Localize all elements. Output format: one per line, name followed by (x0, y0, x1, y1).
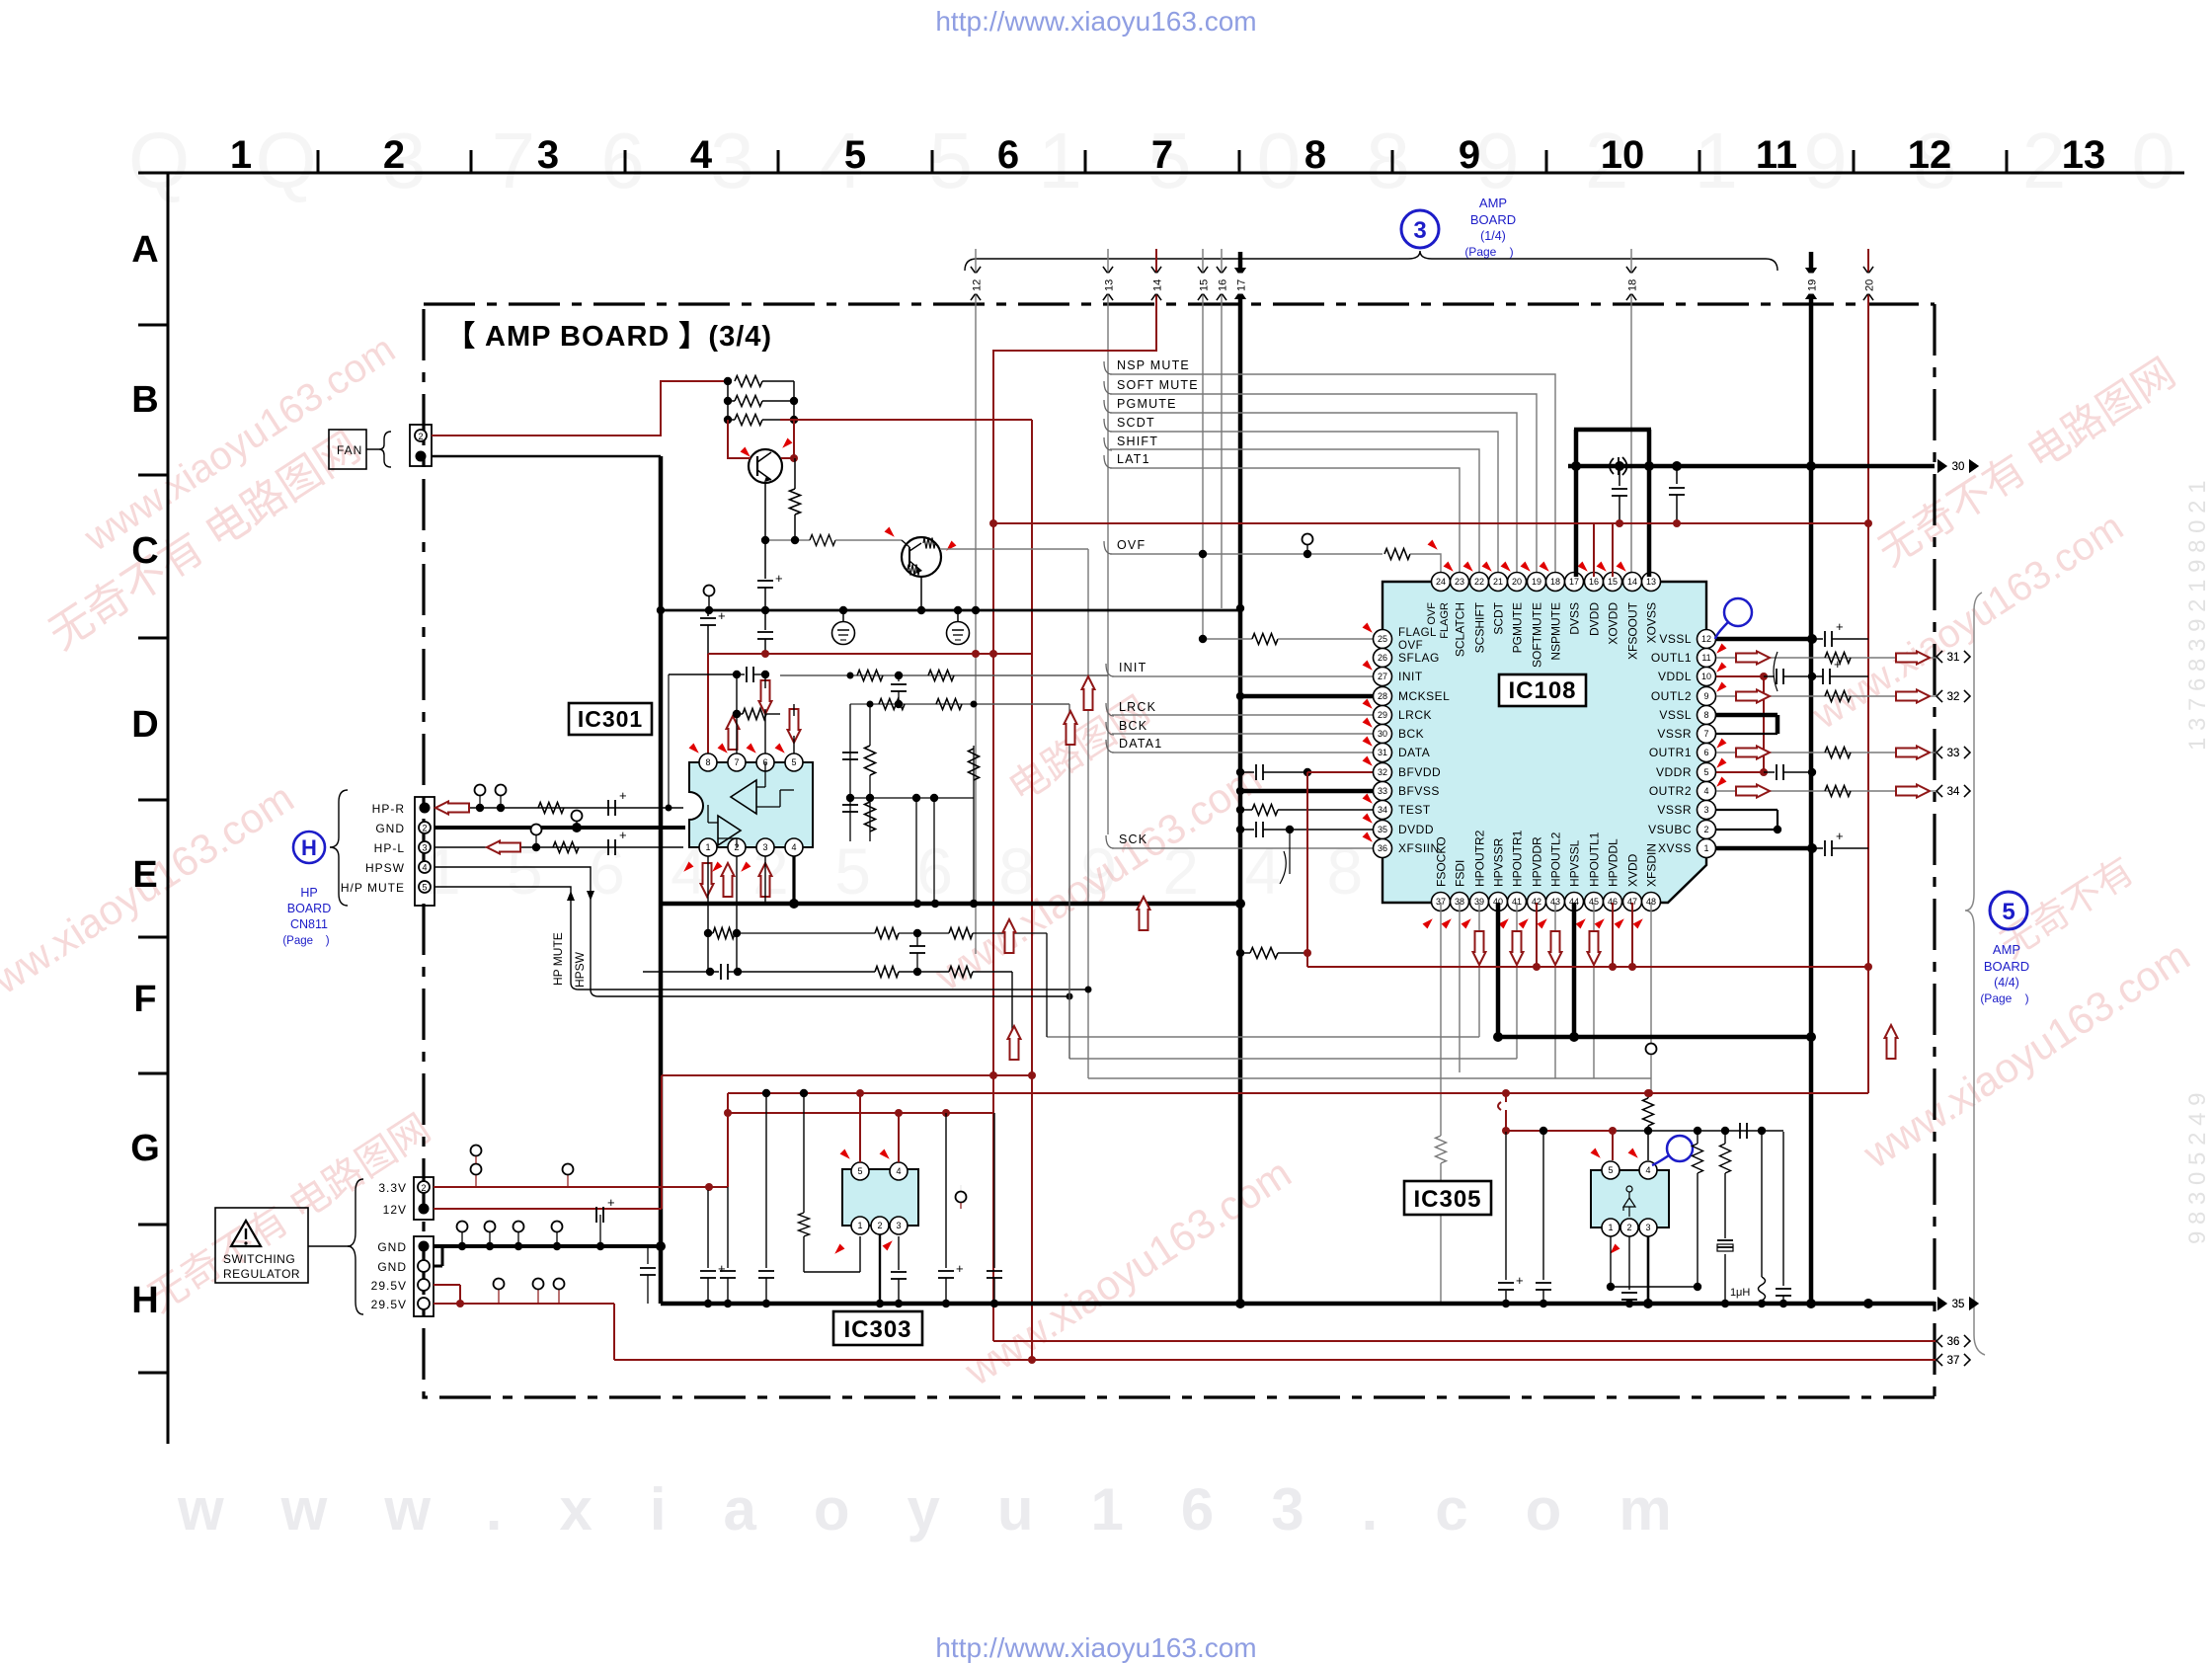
cap polar left (1505, 1132, 1507, 1280)
svg-text:CN811: CN811 (290, 917, 328, 931)
svg-text:4: 4 (690, 133, 713, 177)
page connector 16 glyph (1217, 267, 1226, 274)
arrow (1082, 676, 1095, 710)
page connector 14 top (1151, 267, 1161, 274)
svg-text:SWITCHING: SWITCHING (223, 1252, 295, 1266)
svg-text:FLAGR: FLAGR (1439, 602, 1451, 639)
svg-text:3.3V: 3.3V (378, 1181, 407, 1195)
signal PGMUTE (1104, 400, 1112, 413)
red ticks top pins (1444, 562, 1457, 575)
junction (656, 1241, 666, 1251)
wire DVDD cap (1236, 826, 1244, 833)
signal NSP MUTE (1104, 361, 1112, 374)
wire VSSR3 (1716, 809, 1777, 811)
svg-text:2: 2 (1703, 825, 1708, 834)
svg-text:XFSDIN: XFSDIN (1645, 843, 1659, 887)
wire thick row1050 (1498, 1035, 1811, 1040)
svg-text:(Page ): (Page ) (1980, 991, 2028, 1005)
svg-text:5: 5 (791, 757, 796, 767)
junctions red (761, 650, 769, 658)
resistor (538, 803, 564, 814)
tp2 (567, 1175, 569, 1187)
wire pin46 red (1612, 903, 1614, 967)
test point (576, 821, 578, 828)
wire (793, 381, 795, 420)
wire conn14 red (993, 249, 1156, 419)
svg-text:HPVDDR: HPVDDR (1531, 836, 1544, 887)
AMP BOARD dashed border (424, 304, 1935, 1397)
svg-text:3: 3 (896, 1221, 901, 1230)
svg-text:7: 7 (1703, 729, 1708, 739)
page connector 35 glyph (1937, 1297, 1947, 1310)
signal SCDT (1104, 419, 1112, 432)
wire pin38 (1459, 903, 1461, 1072)
SW REG brace (348, 1179, 363, 1314)
svg-text:DVDD: DVDD (1398, 823, 1434, 836)
svg-text:12V: 12V (383, 1203, 407, 1217)
svg-text:XVSS: XVSS (1658, 841, 1692, 855)
svg-text:HPVSSR: HPVSSR (1492, 837, 1506, 887)
wire thick gnd bus (659, 456, 664, 1304)
svg-text:D: D (131, 704, 158, 746)
FAN box (329, 430, 366, 469)
svg-text:HP-R: HP-R (372, 802, 405, 816)
svg-text:INIT: INIT (1119, 661, 1146, 674)
wire VSSR7 (1716, 733, 1777, 735)
page connector 19 top (1805, 268, 1817, 277)
svg-text:18: 18 (1627, 279, 1639, 291)
IC301 body (689, 762, 813, 847)
wire stubs (915, 798, 917, 904)
svg-text:16: 16 (1218, 279, 1229, 291)
wire GND thick (434, 1244, 661, 1248)
page link 3 bracket (965, 251, 1777, 271)
svg-text:VSUBC: VSUBC (1648, 823, 1692, 836)
svg-text:SOFT MUTE: SOFT MUTE (1117, 378, 1199, 392)
IC108 label (1499, 674, 1586, 706)
svg-text:32: 32 (1378, 767, 1387, 777)
page connector 14 glyph (1151, 267, 1161, 274)
svg-text:3: 3 (537, 133, 559, 177)
ground sym1 (842, 610, 844, 622)
svg-text:C: C (131, 530, 158, 572)
svg-text:5: 5 (857, 1166, 862, 1176)
svg-text:36: 36 (1947, 1336, 1960, 1348)
ruler left line (167, 173, 170, 1444)
page connector 35 right (1937, 1297, 1947, 1310)
svg-text:21: 21 (1493, 577, 1503, 587)
wire 29.5 down (613, 1304, 615, 1360)
wire 29.5V a (434, 1284, 460, 1286)
svg-text:+: + (956, 1261, 964, 1276)
wire conn20 red vertical (1867, 249, 1869, 1093)
page connector 13 glyph (1103, 267, 1113, 274)
wire pin7 up (736, 674, 738, 753)
page connector 37 right (1936, 1354, 1942, 1366)
page connector 15 top (1198, 267, 1208, 274)
wire GND thick (434, 826, 685, 830)
page connector 36 glyph (1936, 1335, 1942, 1347)
tick (885, 527, 898, 540)
svg-text:OUTR1: OUTR1 (1649, 746, 1692, 759)
HP circled H (293, 831, 325, 863)
tp 29.5 (498, 1290, 500, 1304)
red ticks bottom pins (1423, 916, 1436, 929)
wire row684 (780, 674, 1108, 676)
wire (727, 381, 729, 420)
svg-text:15: 15 (1199, 279, 1211, 291)
svg-text:GND: GND (377, 1240, 407, 1254)
svg-text:14: 14 (1627, 577, 1637, 587)
wire row808 (850, 797, 974, 799)
capacitor (607, 839, 609, 855)
svg-text:OVF: OVF (1426, 602, 1438, 625)
svg-text:HPSW: HPSW (573, 951, 587, 988)
svg-text:32: 32 (1947, 691, 1960, 703)
svg-text:20: 20 (1512, 577, 1522, 587)
resistor col2 (1724, 1131, 1726, 1144)
wire red vert BFVDD (1306, 772, 1308, 967)
svg-text:11: 11 (1756, 133, 1797, 177)
svg-text:XFSOOUT: XFSOOUT (1626, 601, 1640, 660)
wire red row (708, 653, 1032, 655)
svg-text:7: 7 (734, 757, 739, 767)
wire DVSS thick box (1574, 430, 1579, 577)
svg-text:HP: HP (300, 886, 317, 900)
IC303 label (833, 1311, 922, 1345)
wire 12V red (434, 1208, 662, 1210)
wire FLAGL (1203, 638, 1252, 640)
page link 5 bracket (1965, 593, 1985, 1355)
wire conn15 vertical (1202, 249, 1204, 638)
wire pin3 cap (898, 1236, 900, 1270)
blue wire annotation (1724, 598, 1752, 626)
IC305 label (1404, 1181, 1491, 1215)
page connector 16 top (1217, 267, 1226, 274)
svg-text:31: 31 (1947, 652, 1960, 664)
resistor vertical (794, 458, 796, 489)
svg-text:14: 14 (1152, 279, 1164, 291)
svg-text:HP MUTE: HP MUTE (551, 932, 565, 986)
junction red (1028, 1071, 1036, 1079)
ruler top line (138, 172, 2184, 175)
wire conn12 vertical (975, 249, 977, 954)
svg-text:BCK: BCK (1119, 719, 1147, 733)
svg-text:17: 17 (1569, 577, 1579, 587)
page connector 15 glyph (1198, 267, 1208, 274)
svg-text:REGULATOR: REGULATOR (223, 1267, 300, 1281)
wire TEST (1236, 806, 1244, 814)
resistor leg pin1 (800, 1089, 808, 1097)
svg-text:3: 3 (1703, 805, 1708, 815)
wire red up (727, 1093, 729, 1187)
wire 29.5V b (434, 1303, 614, 1305)
svg-text:7: 7 (1151, 133, 1173, 177)
junction (847, 673, 854, 679)
wire OUTL2 (1716, 695, 1896, 697)
wire pin42 red (1536, 903, 1538, 967)
svg-text:33: 33 (1378, 786, 1387, 796)
wire Q1 emitter (764, 483, 766, 540)
wire pin39 (1478, 903, 1480, 1037)
resistor (735, 376, 762, 387)
svg-text:【 AMP BOARD 】(3/4): 【 AMP BOARD 】(3/4) (446, 320, 772, 353)
svg-text:22: 22 (1474, 577, 1484, 587)
svg-text:36: 36 (1378, 843, 1387, 853)
page connector 34 glyph (1936, 785, 1942, 797)
IC108 right pins 12-1 (1698, 630, 1716, 649)
svg-text:8: 8 (1304, 133, 1326, 177)
capacitor polar (707, 610, 709, 616)
page connector 36 right (1936, 1335, 1942, 1347)
svg-text:+: + (1516, 1273, 1524, 1288)
svg-text:VDDR: VDDR (1656, 765, 1692, 779)
wire pin47 red (1631, 903, 1633, 967)
svg-text:5: 5 (2002, 899, 2014, 925)
svg-text:4: 4 (1645, 1165, 1650, 1175)
capacitor (1764, 675, 1775, 677)
svg-text:26: 26 (1378, 653, 1387, 663)
page connector 32 right (1936, 690, 1942, 702)
res pair (842, 804, 858, 806)
svg-text:LRCK: LRCK (1119, 700, 1156, 714)
svg-text:2: 2 (383, 133, 405, 177)
svg-text:12: 12 (1701, 634, 1711, 644)
junctions (657, 606, 665, 614)
capacitor (1812, 638, 1823, 640)
resistor row723 (733, 710, 741, 718)
svg-text:IC303: IC303 (843, 1316, 911, 1343)
svg-text:9: 9 (1459, 133, 1480, 177)
svg-text:19: 19 (1532, 577, 1541, 587)
IC301 opamp1 (731, 780, 756, 814)
tp (960, 1185, 962, 1209)
svg-text:+: + (1834, 657, 1842, 672)
svg-text:MCKSEL: MCKSEL (1398, 689, 1450, 703)
svg-text:DVDD: DVDD (1588, 602, 1602, 636)
svg-text:AMP: AMP (1479, 196, 1507, 210)
svg-text:H/P MUTE: H/P MUTE (341, 881, 405, 895)
transistor Q2 (902, 537, 941, 577)
cap pair (842, 752, 858, 753)
page connector 31 right (1936, 651, 1942, 663)
svg-text:SOFTMUTE: SOFTMUTE (1531, 602, 1544, 668)
svg-text:1 3 7 6 8 3 9 2 1 9 8 0 2 1: 1 3 7 6 8 3 9 2 1 9 8 0 2 1 (2184, 480, 2211, 751)
junction red (1303, 949, 1311, 957)
svg-text:SFLAG: SFLAG (1398, 651, 1440, 665)
svg-text:A: A (131, 229, 158, 271)
IC108 bottom pins 37-48 (1432, 893, 1451, 911)
svg-text:6: 6 (1703, 748, 1708, 757)
svg-text:SHIFT: SHIFT (1117, 435, 1158, 448)
svg-text:5: 5 (422, 883, 427, 893)
signal OVF (1104, 541, 1112, 554)
svg-text:OUTR2: OUTR2 (1649, 784, 1692, 798)
svg-text:TEST: TEST (1398, 803, 1431, 817)
svg-text:(4/4): (4/4) (1994, 976, 2019, 990)
svg-text:9 8 3 0 5 2 4 9: 9 8 3 0 5 2 4 9 (2184, 1093, 2211, 1244)
wire HP-R (434, 807, 683, 809)
svg-text:+: + (718, 1261, 726, 1276)
svg-text:2: 2 (422, 824, 427, 833)
svg-text:30: 30 (1952, 461, 1965, 473)
signal SOFT MUTE (1104, 381, 1112, 394)
cap top (733, 671, 741, 678)
svg-text:XFSIIN: XFSIIN (1398, 841, 1440, 855)
svg-text:NSP MUTE: NSP MUTE (1117, 358, 1190, 372)
svg-text:BFVDD: BFVDD (1398, 765, 1441, 779)
svg-text:VSSL: VSSL (1659, 632, 1692, 646)
FAN connector CN (410, 425, 432, 466)
signal SHIFT (1104, 437, 1112, 450)
svg-text:OVF: OVF (1117, 538, 1145, 552)
svg-text:F: F (133, 979, 156, 1020)
page connector 17 glyph (1234, 268, 1246, 277)
svg-text:B: B (131, 379, 158, 421)
page connector 13 top (1103, 267, 1113, 274)
svg-text:27: 27 (1378, 672, 1387, 681)
svg-text:5: 5 (1703, 767, 1708, 777)
cap h node (1739, 1123, 1741, 1139)
svg-text:NSPMUTE: NSPMUTE (1549, 602, 1563, 661)
wire Q2 base (902, 540, 909, 547)
svg-text:BOARD: BOARD (1470, 212, 1516, 227)
signal LAT1 (1104, 455, 1112, 468)
page connector 12 glyph (971, 267, 981, 274)
page link circle 3 (1401, 210, 1439, 248)
svg-text:13: 13 (1104, 279, 1116, 291)
resistor (553, 842, 579, 853)
wire pin44 thick (1572, 903, 1577, 1037)
svg-text:3: 3 (762, 842, 767, 852)
svg-text:5: 5 (844, 133, 866, 177)
resistor (969, 749, 980, 780)
wire row984 (643, 971, 719, 973)
resistor (728, 400, 735, 402)
wire red to IC301 pin8 (707, 654, 709, 753)
svg-text:29.5V: 29.5V (371, 1279, 407, 1293)
wires below IC301 (707, 856, 709, 972)
capacitor right (1782, 1132, 1784, 1286)
svg-text:4: 4 (896, 1166, 901, 1176)
page connector 18 top (1626, 267, 1636, 274)
svg-text:1 5 6 4 2 5 6 8 9 2 4 8: 1 5 6 4 2 5 6 8 9 2 4 8 (425, 834, 1377, 908)
page connector 19 glyph (1805, 268, 1817, 277)
wire red row1127 (728, 1112, 994, 1114)
IC303 ticks (840, 1149, 853, 1162)
page connector 20 top (1863, 267, 1873, 274)
wire red down B (1031, 420, 1033, 1360)
wire OUTR2 (1716, 790, 1896, 792)
test point (708, 596, 710, 610)
wire gray rows to hp (1047, 1036, 1479, 1038)
svg-text:www.xiaoyu163.com: www.xiaoyu163.com (177, 1476, 1729, 1543)
wire pin3 thick (1647, 1236, 1650, 1304)
HP connector pins (420, 803, 431, 814)
svg-text:(Page ): (Page ) (1464, 245, 1513, 259)
resistor pin4 (1647, 1093, 1649, 1098)
wire conn13 vertical (1107, 249, 1109, 834)
wire OUTL1 (1716, 657, 1896, 659)
svg-text:13: 13 (2062, 133, 2106, 177)
IC108 body (1382, 582, 1706, 903)
svg-text:VDDL: VDDL (1658, 670, 1692, 683)
page connector 32 glyph (1936, 690, 1942, 702)
IC303 body (842, 1169, 918, 1226)
wire verts (973, 746, 975, 780)
inductor (1761, 1132, 1763, 1277)
PWR connector A (414, 1177, 434, 1220)
svg-text:HPVDDL: HPVDDL (1607, 838, 1620, 887)
wire thick row915 (661, 902, 1240, 907)
svg-text:11: 11 (1701, 653, 1710, 663)
svg-text:LAT1: LAT1 (1117, 452, 1150, 466)
svg-text:17: 17 (1236, 279, 1248, 291)
svg-text:10: 10 (1701, 672, 1711, 681)
svg-text:DVSS: DVSS (1568, 602, 1582, 635)
svg-text:HPOUTR2: HPOUTR2 (1473, 830, 1487, 887)
wire red row1107 (728, 1092, 1868, 1094)
svg-text:SCDT: SCDT (1117, 416, 1155, 430)
wire black left col (1542, 1131, 1544, 1280)
capacitor (647, 1246, 649, 1264)
wire VSSL12 thick (1716, 637, 1812, 642)
page connector 17 top (1234, 268, 1246, 277)
wire red pin16 (1593, 523, 1595, 577)
svg-text:LRCK: LRCK (1398, 708, 1432, 722)
curve mark (1774, 652, 1777, 691)
svg-text:2: 2 (421, 1183, 426, 1193)
wire BFVDD red (1307, 771, 1375, 773)
junction (1806, 1299, 1816, 1308)
transducer symbol (1610, 457, 1627, 475)
wire red row1377 (614, 1359, 1935, 1361)
wire row683 (669, 673, 737, 675)
svg-text:15: 15 (1608, 577, 1618, 587)
svg-text:XOVSS: XOVSS (1645, 602, 1659, 643)
gnd test points (461, 1232, 463, 1246)
svg-text:13: 13 (1646, 577, 1656, 587)
svg-text:GND: GND (377, 1260, 407, 1274)
svg-text:HP-L: HP-L (374, 841, 405, 855)
page connector 37 glyph (1936, 1354, 1942, 1366)
svg-text:4: 4 (1703, 786, 1708, 796)
wire red row979 (1307, 966, 1868, 968)
svg-text:37: 37 (1947, 1355, 1960, 1367)
svg-text:BOARD: BOARD (287, 902, 331, 915)
wire red pin15 (1612, 523, 1614, 577)
IC301 arrows (759, 680, 772, 714)
resistor col (1697, 1131, 1698, 1144)
wire BFVDD cap (1236, 768, 1244, 776)
svg-text:10: 10 (1601, 133, 1645, 177)
svg-text:8: 8 (1703, 710, 1708, 720)
svg-text:VSSL: VSSL (1659, 708, 1692, 722)
svg-text:24: 24 (1436, 577, 1446, 587)
caps bottom (909, 945, 925, 947)
svg-text:GND: GND (375, 822, 405, 835)
svg-text:http://www.xiaoyu163.com: http://www.xiaoyu163.com (935, 6, 1256, 37)
wire pin41 (1516, 903, 1518, 1059)
junction red (856, 1089, 864, 1097)
crystal (1717, 1239, 1733, 1241)
wire XVSS1 thick (1716, 846, 1812, 851)
svg-text:BFVSS: BFVSS (1398, 784, 1440, 798)
svg-text:IC305: IC305 (1413, 1186, 1481, 1213)
svg-text:12: 12 (1908, 133, 1952, 177)
svg-text:IC301: IC301 (578, 706, 643, 732)
svg-text:HPOUTL1: HPOUTL1 (1588, 831, 1602, 887)
